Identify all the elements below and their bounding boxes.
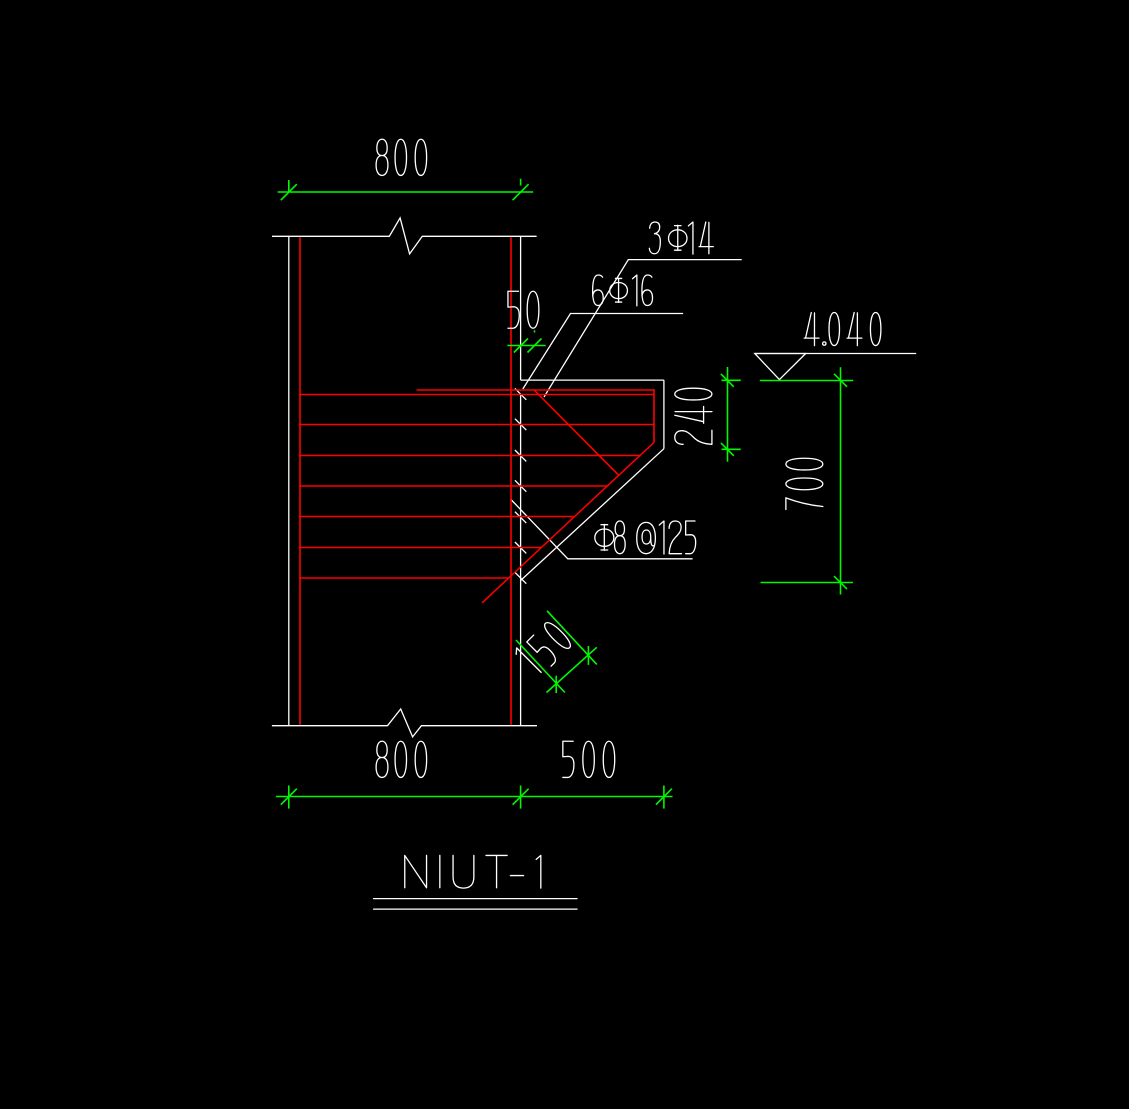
top 800 dim line <box>278 191 534 193</box>
leader phi8at125 <box>511 499 693 559</box>
bar anchorage slashes on column face <box>515 388 526 399</box>
leader 3phi14 <box>544 260 742 397</box>
240 dim line <box>727 367 729 462</box>
text phi8at125 <box>595 521 696 554</box>
leader 6phi16 <box>523 314 683 390</box>
dimensions (green) <box>276 179 853 809</box>
text 800 bottom <box>376 741 427 777</box>
elevation marker triangle <box>755 354 806 380</box>
text 240 rotated <box>675 388 712 444</box>
stirrup 2 <box>299 455 640 457</box>
elevation marker line <box>755 353 916 355</box>
column right face above corbel <box>520 236 522 380</box>
bent bar sloped leg <box>482 442 654 603</box>
stirrup 5 <box>299 547 541 549</box>
column bottom break line <box>272 709 537 737</box>
50 dim <box>507 345 545 347</box>
stirrup 4 <box>299 516 574 518</box>
corbel top edge <box>521 379 664 381</box>
column outline (white) <box>272 218 916 737</box>
title underline double <box>374 898 577 900</box>
text 4.040 elevation <box>804 313 881 346</box>
texts (white stroke glyphs) <box>374 139 881 909</box>
title NIUT-1 <box>405 855 541 888</box>
text 500 bottom <box>563 741 615 777</box>
stirrup 1 <box>299 424 654 426</box>
150 dim (rotated) <box>547 611 597 665</box>
text 6phi16 <box>593 275 653 306</box>
text 50 <box>508 291 539 328</box>
corbel sloped edge <box>521 449 664 581</box>
stirrup 3 <box>299 485 607 487</box>
text 700 rotated <box>786 458 823 509</box>
stirrup 6 <box>299 577 509 579</box>
column left rebar <box>299 237 301 724</box>
inclined bar <box>534 389 620 475</box>
corbel top bar 2 <box>299 394 654 396</box>
column top break line <box>272 218 537 254</box>
reinforcement (red) <box>299 237 654 724</box>
text 800 top <box>376 139 427 175</box>
text 150 rotated 45 <box>513 620 573 676</box>
bottom 800/500 dim line <box>276 796 673 798</box>
text 3phi14 <box>649 222 713 254</box>
column right rebar <box>510 237 512 724</box>
bent bar vertical end <box>653 389 655 442</box>
700 dim line <box>840 367 842 594</box>
column right face below corbel corner <box>520 395 522 726</box>
column left edge <box>288 236 290 725</box>
corbel right edge <box>663 380 665 449</box>
corbel top bar 1 <box>417 389 654 391</box>
